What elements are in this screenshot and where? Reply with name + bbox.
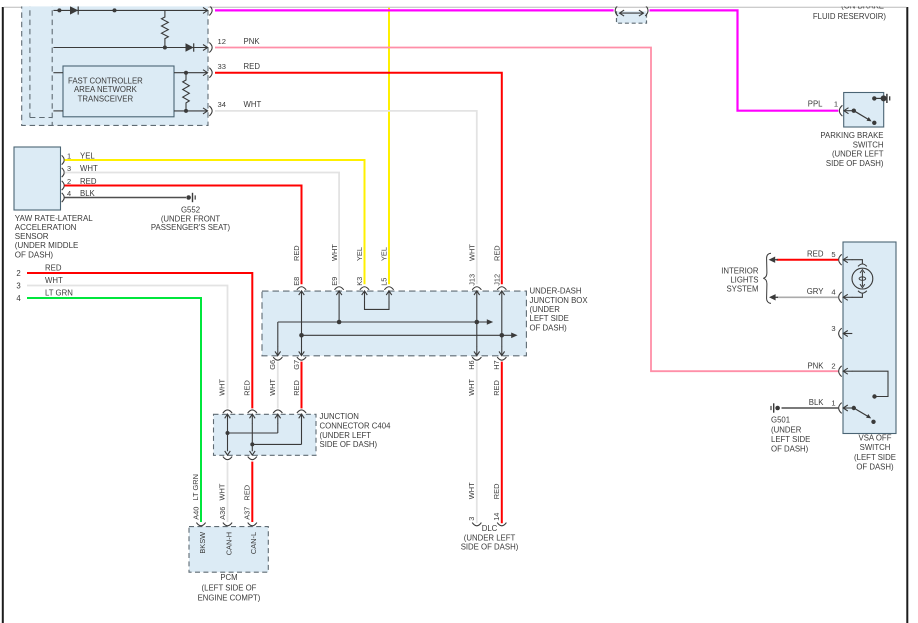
- svg-text:OF DASH): OF DASH): [771, 445, 809, 454]
- DLC connector pin 3: [472, 523, 481, 526]
- junction dot J12: [500, 333, 505, 338]
- svg-text:RED: RED: [492, 380, 501, 396]
- svg-text:WHT: WHT: [268, 378, 277, 395]
- svg-text:SIDE OF DASH): SIDE OF DASH): [826, 159, 884, 168]
- svg-text:(UNDER LEFT: (UNDER LEFT: [320, 431, 372, 440]
- svg-text:RED: RED: [243, 380, 252, 396]
- wire stub left pin CAN-L: [53, 110, 63, 112]
- VSA switch pin 3 connector: [839, 328, 842, 339]
- VSA indicator lamp: [852, 260, 863, 264]
- svg-text:WHT: WHT: [468, 244, 477, 261]
- svg-text:34: 34: [218, 100, 226, 109]
- wire WHT sensor pin3 to junction box E9: [65, 173, 340, 285]
- svg-text:(UNDER LEFT: (UNDER LEFT: [832, 149, 884, 158]
- wire BLK VSA pin1 to ground G501: [782, 407, 839, 409]
- svg-text:LIGHTS: LIGHTS: [730, 276, 758, 285]
- sensor pin 4: [62, 193, 64, 202]
- svg-text:1: 1: [834, 100, 838, 109]
- wire RED to junction connector C404: [27, 273, 252, 408]
- junction connector C404 box: [214, 414, 317, 455]
- arrow to interior lights 2: [770, 296, 778, 298]
- svg-text:PARKING BRAKE: PARKING BRAKE: [820, 131, 883, 140]
- junction box connector J12: [497, 287, 506, 290]
- svg-text:CONNECTOR C404: CONNECTOR C404: [320, 421, 392, 430]
- svg-text:UNDER-DASH: UNDER-DASH: [530, 287, 582, 296]
- svg-text:OF DASH): OF DASH): [856, 462, 894, 471]
- switch grounded contact: [872, 96, 876, 100]
- wire RED sensor pin2 to junction box E8: [65, 186, 302, 285]
- junction box internal J13-H6 vertical: [476, 300, 478, 347]
- svg-text:YEL: YEL: [80, 151, 95, 160]
- svg-text:LT GRN: LT GRN: [191, 474, 200, 500]
- svg-text:VSA OFF: VSA OFF: [859, 434, 892, 443]
- inline connector on PPL wire: [617, 11, 647, 23]
- junction box connector E9: [335, 287, 344, 290]
- junction box internal bus line 1 with arrow: [278, 321, 488, 323]
- wire WHT C404 to PCM A36: [227, 462, 229, 522]
- svg-text:WHT: WHT: [80, 164, 98, 173]
- svg-text:SIDE OF DASH): SIDE OF DASH): [461, 543, 519, 552]
- svg-text:RED: RED: [807, 250, 824, 259]
- switch contact dot: [852, 109, 856, 113]
- svg-text:PASSENGER'S SEAT): PASSENGER'S SEAT): [151, 223, 231, 232]
- sensor pin 2: [62, 181, 64, 190]
- svg-text:A36: A36: [218, 507, 227, 520]
- sensor pin 3: [62, 168, 64, 177]
- svg-text:(UNDER: (UNDER: [530, 305, 561, 314]
- svg-text:2: 2: [67, 177, 71, 186]
- junction dot resistor bottom: [163, 46, 167, 50]
- wire RED H7 to DLC: [501, 362, 503, 524]
- svg-text:RED: RED: [292, 245, 301, 261]
- VSA switch pin2 contact branch: [852, 371, 888, 396]
- PCM pin A37: [248, 523, 257, 526]
- svg-text:A37: A37: [243, 507, 252, 520]
- svg-text:(UNDER: (UNDER: [771, 425, 802, 434]
- node junction dot: [57, 8, 61, 12]
- svg-text:E8: E8: [292, 277, 301, 286]
- inner dashed partition line: [29, 1, 31, 118]
- connector pin 12: [203, 45, 208, 51]
- svg-text:PNK: PNK: [807, 361, 824, 370]
- svg-text:YEL: YEL: [380, 247, 389, 261]
- C404 internal WHT bus: [227, 423, 229, 451]
- PCM box: [189, 527, 268, 573]
- svg-text:DLC: DLC: [482, 524, 498, 533]
- wire WHT to junction connector C404: [27, 286, 228, 409]
- resistor (terminating): [162, 10, 169, 47]
- svg-text:WHT: WHT: [244, 100, 262, 109]
- diode D (pin 12 line): [186, 43, 194, 51]
- svg-text:2: 2: [831, 362, 835, 371]
- svg-text:(UNDER FRONT: (UNDER FRONT: [161, 214, 221, 223]
- svg-text:RED: RED: [292, 380, 301, 396]
- svg-text:3: 3: [467, 517, 476, 521]
- page left border: [2, 7, 4, 623]
- svg-text:RED: RED: [493, 245, 502, 261]
- svg-text:INTERIOR: INTERIOR: [721, 267, 759, 276]
- svg-text:G7: G7: [292, 360, 301, 370]
- junction box connector E8: [297, 287, 306, 290]
- svg-text:(UNDER LEFT: (UNDER LEFT: [464, 533, 516, 542]
- svg-text:(LEFT SIDE OF: (LEFT SIDE OF: [202, 583, 257, 592]
- svg-text:SWITCH: SWITCH: [860, 443, 891, 452]
- svg-text:RED: RED: [45, 263, 62, 272]
- switch open contact dot: [872, 121, 876, 125]
- inner dashed partition line 2: [51, 1, 53, 125]
- wire YEL from top to junction box L5: [388, 8, 390, 284]
- svg-text:ACCELERATION: ACCELERATION: [15, 223, 77, 232]
- junction box connector J13: [472, 287, 481, 290]
- C404 bottom connector WHT: [223, 457, 232, 460]
- C404 top connector: [248, 410, 257, 413]
- svg-text:RED: RED: [80, 177, 97, 186]
- wire transceiver to pin 34: [174, 110, 208, 112]
- wire LT GRN to PCM A40: [27, 298, 201, 522]
- connector exit (PPL line): [203, 7, 208, 13]
- svg-text:TRANSCEIVER: TRANSCEIVER: [78, 94, 134, 103]
- svg-text:LEFT SIDE: LEFT SIDE: [771, 435, 810, 444]
- svg-text:3: 3: [67, 164, 71, 173]
- junction dot J13: [475, 320, 480, 325]
- svg-text:JUNCTION BOX: JUNCTION BOX: [530, 296, 589, 305]
- svg-text:SWITCH: SWITCH: [853, 140, 884, 149]
- resistor between CAN-H and CAN-L: [183, 73, 190, 111]
- VSA switch pin 2 connector: [839, 366, 842, 377]
- svg-text:BLK: BLK: [80, 189, 96, 198]
- svg-text:BKSW: BKSW: [198, 532, 207, 554]
- wire RED C404 to PCM A37: [251, 462, 253, 522]
- VSA switch pin 1 connector: [839, 403, 842, 414]
- junction dot E9: [337, 320, 342, 325]
- svg-text:WHT: WHT: [330, 244, 339, 261]
- junction box connector H7: [501, 347, 503, 356]
- svg-text:5: 5: [831, 250, 835, 259]
- svg-text:J12: J12: [493, 274, 502, 286]
- svg-text:PCM: PCM: [220, 573, 237, 582]
- wire stub left pin CAN-H: [53, 72, 63, 74]
- svg-text:LEFT SIDE: LEFT SIDE: [530, 314, 569, 323]
- svg-text:FLUID RESERVOIR): FLUID RESERVOIR): [813, 12, 886, 21]
- svg-text:H6: H6: [467, 360, 476, 369]
- junction box connector L5: [384, 287, 393, 290]
- svg-text:RED: RED: [492, 484, 501, 500]
- parking brake switch pin 1 connector: [839, 105, 842, 116]
- wire WHT pin34 to junction box J13: [215, 111, 477, 284]
- wire GRY to interior lights system: [777, 296, 839, 298]
- svg-text:PPL: PPL: [808, 100, 823, 109]
- svg-text:(LEFT SIDE: (LEFT SIDE: [854, 453, 896, 462]
- svg-text:AREA NETWORK: AREA NETWORK: [74, 85, 138, 94]
- svg-text:JUNCTION: JUNCTION: [320, 412, 359, 421]
- junction box internal E8-G7 vertical: [301, 300, 303, 347]
- junction dot: [184, 109, 188, 113]
- junction box connector G6: [277, 347, 279, 356]
- svg-text:LT GRN: LT GRN: [45, 288, 73, 297]
- svg-text:OF DASH): OF DASH): [15, 250, 54, 259]
- svg-text:E9: E9: [330, 277, 339, 286]
- connector pin 34: [203, 108, 208, 114]
- svg-text:4: 4: [16, 294, 21, 303]
- svg-text:G552: G552: [181, 206, 200, 215]
- svg-text:1: 1: [67, 151, 71, 160]
- svg-text:14: 14: [492, 513, 501, 521]
- ABS/VSA modulator-control unit outer dashed box: [22, 1, 208, 125]
- junction box internal bus line 2 with arrow: [302, 334, 513, 336]
- svg-text:WHT: WHT: [467, 482, 476, 499]
- junction dot E8: [299, 333, 304, 338]
- svg-text:RED: RED: [244, 62, 261, 71]
- wire - second line to pin 12: [53, 47, 207, 49]
- junction box internal K3-L5 link: [365, 300, 390, 309]
- C404 internal RED bus: [251, 423, 253, 451]
- svg-text:YEL: YEL: [355, 247, 364, 261]
- wire RED pin33 to junction box J12: [215, 73, 502, 285]
- wire RED G7 to C404: [301, 362, 303, 409]
- wire - CAN bus top line: [53, 9, 207, 11]
- svg-text:J13: J13: [468, 274, 477, 286]
- svg-text:33: 33: [218, 62, 226, 71]
- arrow to interior lights: [770, 259, 778, 261]
- FAST CAN transceiver box U1: [63, 66, 174, 117]
- VSA switch lever: [852, 406, 856, 410]
- wire PPL to brake fluid level switch: [215, 9, 614, 11]
- page right border: [906, 7, 908, 623]
- VSA switch pin 4 connector: [839, 292, 842, 303]
- interior lights system brace: [763, 253, 771, 303]
- svg-text:ENGINE COMPT): ENGINE COMPT): [198, 594, 261, 603]
- switch lever with arrow: [854, 111, 869, 120]
- sensor pin 1: [62, 155, 64, 164]
- svg-text:L5: L5: [380, 278, 389, 286]
- junction box internal G6 drop: [277, 322, 279, 347]
- diode D (top line): [70, 6, 78, 14]
- DLC connector pin 14: [497, 523, 506, 526]
- ground G552: [186, 195, 191, 200]
- junction box connector K3: [360, 287, 369, 290]
- svg-text:1: 1: [831, 398, 835, 407]
- wire YEL sensor pin1 to junction box K3: [65, 160, 365, 284]
- VSA OFF switch box: [843, 242, 896, 434]
- svg-text:2: 2: [16, 269, 20, 278]
- svg-text:SIDE OF DASH): SIDE OF DASH): [320, 440, 378, 449]
- svg-text:GRY: GRY: [807, 287, 825, 296]
- svg-text:PNK: PNK: [244, 37, 261, 46]
- C404 bottom connector RED: [248, 457, 257, 460]
- svg-text:4: 4: [831, 288, 835, 297]
- svg-text:12: 12: [218, 37, 226, 46]
- svg-text:3: 3: [831, 324, 835, 333]
- svg-text:(UNDER MIDDLE: (UNDER MIDDLE: [15, 241, 79, 250]
- junction box connector H6: [476, 347, 478, 356]
- under-dash junction box: [262, 291, 526, 356]
- svg-text:BLK: BLK: [809, 398, 825, 407]
- wire PNK pin12 to VSA OFF switch pin 2: [215, 48, 838, 372]
- junction dot: [184, 71, 188, 75]
- junction box connector G7: [301, 347, 303, 356]
- ground G501: [775, 406, 780, 411]
- wire WHT H6 to DLC: [476, 362, 478, 524]
- top margin band: [0, 0, 918, 6]
- connector pin 33: [203, 70, 208, 76]
- C404 top connector: [273, 410, 282, 413]
- wire PPL continue to parking brake switch: [650, 10, 839, 110]
- svg-text:WHT: WHT: [45, 276, 63, 285]
- parking brake switch: [844, 93, 884, 128]
- svg-text:YAW RATE-LATERAL: YAW RATE-LATERAL: [15, 214, 93, 223]
- junction box internal J12-H7 vertical: [501, 300, 503, 347]
- wire BLK sensor pin4 to ground G552: [65, 197, 187, 199]
- node junction dot: [113, 8, 117, 12]
- svg-text:H7: H7: [492, 360, 501, 369]
- svg-text:G6: G6: [268, 360, 277, 370]
- C404 top connector: [297, 410, 306, 413]
- junction box internal E9 drop: [338, 300, 340, 322]
- wire transceiver to pin 33: [174, 72, 208, 74]
- C404 top connector: [223, 410, 232, 413]
- svg-text:SYSTEM: SYSTEM: [726, 285, 758, 294]
- yaw rate-lateral acceleration sensor box: [14, 147, 61, 210]
- page top border: [4, 6, 907, 8]
- svg-text:G501: G501: [771, 416, 790, 425]
- svg-text:RED: RED: [243, 485, 252, 501]
- VSA switch pin 5 connector: [839, 254, 842, 265]
- svg-text:4: 4: [67, 189, 71, 198]
- svg-text:A40: A40: [191, 507, 200, 520]
- PCM pin A36: [223, 523, 232, 526]
- svg-text:WHT: WHT: [467, 378, 476, 395]
- wire RED to interior lights system: [777, 259, 839, 261]
- PCM pin A40: [196, 523, 205, 526]
- chassis ground at switch case: [881, 95, 887, 101]
- svg-text:SENSOR: SENSOR: [15, 232, 49, 241]
- wire WHT G6 to C404: [277, 362, 279, 409]
- svg-text:OF DASH): OF DASH): [530, 323, 568, 332]
- svg-text:K3: K3: [355, 277, 364, 286]
- svg-text:CAN-L: CAN-L: [249, 532, 258, 554]
- svg-text:3: 3: [16, 282, 20, 291]
- svg-text:WHT: WHT: [218, 483, 227, 500]
- svg-text:CAN-H: CAN-H: [224, 532, 233, 555]
- svg-text:WHT: WHT: [218, 378, 227, 395]
